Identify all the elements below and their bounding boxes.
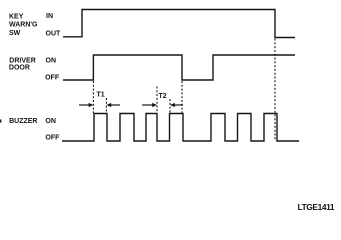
svg-text:OFF: OFF xyxy=(45,74,60,81)
svg-text:T1: T1 xyxy=(97,91,105,98)
arrow T1 left xyxy=(79,103,93,107)
scan speck at left edge xyxy=(0,120,1,123)
svg-text:LTGE1411: LTGE1411 xyxy=(298,202,335,212)
waveform BUZZER xyxy=(62,114,299,142)
svg-text:T2: T2 xyxy=(159,93,167,100)
svg-text:OUT: OUT xyxy=(46,30,62,37)
dashed line T2 left x=157 xyxy=(156,87,158,114)
arrow T2 right xyxy=(170,103,183,107)
svg-text:SW: SW xyxy=(9,30,21,37)
svg-text:IN: IN xyxy=(46,13,53,20)
dashed line at driver-door rise x=93 xyxy=(92,81,94,113)
svg-text:WARN'G: WARN'G xyxy=(9,22,38,29)
dashed line at key-sw fall x=275 xyxy=(274,39,276,141)
svg-text:DOOR: DOOR xyxy=(9,64,30,71)
waveform DRIVER DOOR xyxy=(63,55,295,80)
dashed line T1 right x=106 xyxy=(105,98,107,114)
waveform KEY WARN'G SW xyxy=(63,10,295,38)
arrow T1 right xyxy=(106,103,120,107)
svg-text:ON: ON xyxy=(45,118,56,125)
label DRIVER DOOR xyxy=(9,58,36,72)
svg-text:OFF: OFF xyxy=(45,135,60,142)
dashed line T2 right x=170 xyxy=(169,99,171,114)
arrow T2 left xyxy=(142,103,157,107)
label KEY WARN'G SW xyxy=(9,13,38,37)
svg-text:ON: ON xyxy=(46,58,57,65)
svg-text:BUZZER: BUZZER xyxy=(9,118,37,125)
svg-text:KEY: KEY xyxy=(9,13,24,20)
dashed line at driver-door fall x=182 xyxy=(181,81,183,115)
